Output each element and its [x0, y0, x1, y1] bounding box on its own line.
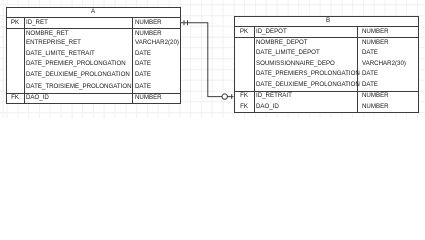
table B key column divider — [254, 27, 255, 112]
table A row5 name DATE_PREMIER_PROLONGATION — [26, 61, 126, 67]
table A row5 type DATE — [135, 61, 151, 67]
table A title — [90, 9, 94, 15]
cardinality tick 1 near A — [183, 20, 185, 25]
table B row3 type DATE — [362, 50, 378, 56]
relationship wire A to B — [181, 23, 234, 97]
table A row3 name ENTREPRISE_RET — [26, 40, 81, 46]
table B row7 key FK — [240, 93, 248, 99]
table B row8 name DAO_ID — [256, 104, 279, 110]
table B title — [325, 18, 329, 24]
table A row8 key FK — [11, 95, 19, 101]
table B row8 type NUMBER — [362, 104, 389, 110]
table A row6 name DATE_DEUXIEME_PROLONGATION — [26, 72, 130, 78]
table A PK row separator — [7, 28, 180, 29]
table B row5 name DATE_PREMIERS_PROLONGATION — [256, 71, 360, 77]
table A row2 type NUMBER — [135, 31, 162, 37]
entity table B — [234, 16, 419, 114]
table B row8 key FK — [240, 104, 248, 110]
table A row1 type NUMBER — [135, 20, 162, 26]
table B type column divider — [357, 27, 358, 112]
table A row4 name DATE_LIMITE_RETRAIT — [26, 51, 95, 57]
table A row6 type DATE — [135, 72, 151, 78]
table B row4 name SOUMISSIONNAIRE_DEPO — [256, 61, 335, 67]
table A row1 key PK — [11, 20, 19, 26]
entity table A — [6, 7, 181, 105]
table A row8 name DAO_ID — [26, 95, 49, 101]
table A row1 name ID_RET — [26, 20, 48, 26]
table B row2 type NUMBER — [362, 40, 389, 46]
table A row8 type NUMBER — [135, 95, 162, 101]
table B row1 type NUMBER — [362, 29, 389, 35]
table B row4 type VARCHAR2(30) — [362, 61, 406, 67]
table A header separator — [6, 17, 181, 18]
table A row7 type DATE — [135, 84, 151, 90]
table B row3 name DATE_LIMITE_DEPOT — [256, 50, 320, 56]
table B PK row separator — [235, 37, 418, 38]
cardinality tick near B — [231, 94, 233, 99]
table A FK row separator — [7, 93, 180, 94]
table A row3 type VARCHAR2(20) — [135, 40, 179, 46]
table A type column divider — [132, 18, 133, 103]
table A row4 type DATE — [135, 51, 151, 57]
table B header separator — [234, 26, 419, 27]
table B row6 type DATE — [362, 82, 378, 88]
table B row1 key PK — [240, 29, 248, 35]
table B row5 type DATE — [362, 71, 378, 77]
table A key column divider — [24, 18, 25, 103]
table B row2 name NOMBRE_DEPOT — [256, 40, 308, 46]
cardinality tick 2 near A — [187, 20, 189, 25]
table B row1 name ID_DEPOT — [256, 29, 287, 35]
table A row2 name NOMBRE_RET — [26, 31, 69, 37]
table B row7 name ID_RETRAIT — [256, 93, 292, 99]
cardinality circle near B — [222, 94, 227, 99]
table B row7 type NUMBER — [362, 93, 389, 99]
table A row7 name DATE_TROISIEME_PROLONGATION — [26, 84, 132, 90]
table B row6 name DATE_DEUXIEME_PROLONGATION — [256, 82, 360, 88]
table B FK rows separator — [235, 91, 418, 92]
